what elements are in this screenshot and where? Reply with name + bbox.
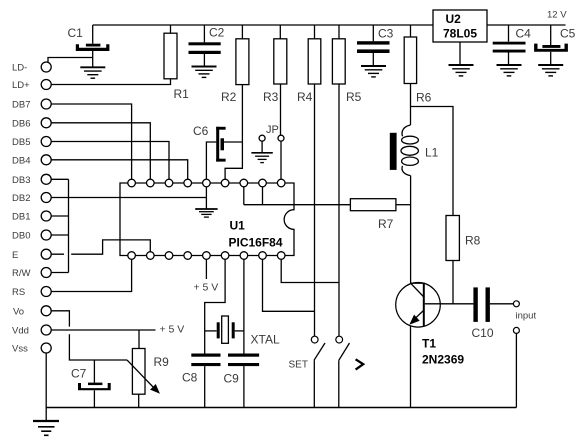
wire DB7 to U1 pin row: [51, 104, 131, 179]
capacitor C7: [78, 360, 111, 408]
svg-text:E: E: [12, 250, 18, 261]
svg-text:PIC16F84: PIC16F84: [229, 236, 283, 250]
wire JP to U1 pin 9: [280, 141, 282, 179]
ground bottom left: [33, 421, 59, 435]
wire DB3 to bus: [51, 178, 68, 180]
wire Vdd +5V: [51, 329, 155, 331]
svg-text:SET: SET: [289, 360, 308, 371]
wire E to U1 pin (with hop over bus): [51, 240, 150, 254]
connector terminal DB5: [41, 137, 51, 147]
jumper JP right pin: [278, 135, 284, 141]
svg-text:L1: L1: [425, 146, 439, 160]
wire DB6 to U1 pin row: [51, 123, 150, 179]
node input terminal upper: [513, 301, 519, 307]
connector terminal Vdd: [41, 325, 51, 335]
svg-text:DB1: DB1: [12, 212, 30, 223]
resistor R3: [274, 25, 287, 84]
connector terminal RS: [41, 287, 51, 297]
wire U1 pin 16 to C9/XTAL: [243, 259, 245, 353]
crystal XTAL: [205, 316, 244, 343]
svg-text:C9: C9: [224, 372, 240, 386]
svg-text:2N2369: 2N2369: [422, 353, 464, 367]
svg-text:JP: JP: [266, 124, 279, 136]
ground under U2: [449, 65, 474, 76]
ground under C4: [497, 65, 522, 76]
svg-text:R1: R1: [174, 87, 190, 101]
svg-text:DB0: DB0: [12, 231, 30, 242]
svg-text:Vdd: Vdd: [12, 326, 29, 337]
resistor R2: [236, 25, 249, 85]
ground under C1: [80, 67, 105, 78]
connector terminal LD+: [41, 80, 51, 90]
svg-text:+ 5 V: + 5 V: [160, 324, 185, 336]
wire DB4 to U1 pin row: [51, 160, 188, 179]
svg-text:R6: R6: [416, 91, 432, 105]
connector terminal DB2: [41, 193, 51, 203]
wire Vo to R9 wiper (hop over Vdd wire): [51, 311, 127, 360]
capacitor C3: [357, 25, 390, 66]
wire vertical bus DB3/DB1/DB0/RW: [68, 179, 70, 272]
wire input lower terminal to bottom rail: [515, 333, 517, 407]
wire R6 bottom to L1: [410, 84, 412, 126]
svg-text:T1: T1: [422, 337, 436, 351]
ground at JP: [251, 153, 272, 163]
capacitor C4: [493, 25, 526, 65]
label > switch: [356, 359, 364, 369]
resistor R8: [446, 216, 459, 261]
switch SET: [311, 336, 325, 407]
svg-text:R/W: R/W: [12, 268, 31, 279]
ground under C5: [538, 65, 563, 76]
ground at U1 pin 5: [195, 209, 217, 217]
wire R/W to bus: [51, 272, 68, 274]
connector terminal DB7: [41, 99, 51, 109]
svg-text:DB3: DB3: [12, 175, 30, 186]
svg-text:R9: R9: [154, 355, 170, 369]
wire +5V top rail left: [93, 24, 433, 26]
wire U1 pin 5 to ground: [205, 187, 207, 209]
wire L1 bottom to T1 collector: [410, 176, 412, 284]
U1 top pin circles 1-9: [128, 179, 285, 187]
wire R7 right to collector line: [396, 204, 411, 206]
svg-text:U2: U2: [446, 12, 462, 26]
connector terminal LD-: [41, 62, 51, 72]
svg-text:RS: RS: [12, 287, 25, 298]
wire U1 pins 7,8 to R7: [244, 187, 351, 205]
svg-text:C6: C6: [193, 124, 209, 138]
svg-text:C4: C4: [516, 27, 532, 41]
wire T1 base to C10: [425, 303, 474, 305]
wire R9 top to Vdd line: [138, 330, 140, 349]
svg-text:U1: U1: [230, 219, 246, 233]
resistor R7: [350, 199, 396, 211]
wire 12V rail right of U2: [487, 24, 566, 26]
connector terminal E: [41, 249, 51, 259]
wire R3 bottom to jumper JP: [280, 84, 282, 135]
wire U2 output to ground: [459, 42, 461, 65]
wire U1 pin 14 to +5V label: [205, 259, 207, 279]
svg-text:DB2: DB2: [12, 193, 30, 204]
U1 bottom pin circles 10-18: [128, 252, 285, 260]
connector terminal DB3: [41, 174, 51, 184]
svg-text:LD-: LD-: [12, 63, 27, 74]
svg-text:DB4: DB4: [12, 155, 30, 166]
capacitor C9: [228, 354, 259, 408]
svg-text:input: input: [516, 311, 537, 322]
wire JP left pin to ground: [261, 141, 263, 152]
resistor R1: [164, 25, 177, 79]
svg-text:C2: C2: [209, 26, 225, 40]
wire U1 pin 18 to > switch: [281, 259, 339, 282]
wire RS to U1 pin: [51, 259, 131, 291]
wire LD+ to R1 bottom: [51, 79, 170, 85]
connector terminal Vss: [41, 343, 51, 353]
connector terminal R/W: [41, 268, 51, 278]
svg-text:C7: C7: [71, 367, 87, 381]
capacitor C6 trimmer: [206, 127, 242, 179]
connector terminal Vo: [41, 306, 51, 316]
svg-text:12 V: 12 V: [547, 10, 567, 21]
core bar of L1: [390, 133, 397, 170]
wire bottom ground rail: [46, 407, 517, 409]
capacitor C1: [76, 25, 110, 67]
wire U1 pin 17 to SET switch: [263, 259, 315, 311]
IC U1 PIC16F84 body with notch: [120, 183, 294, 256]
svg-text:C3: C3: [378, 27, 394, 41]
connector terminal DB1: [41, 211, 51, 221]
svg-text:XTAL: XTAL: [251, 333, 280, 347]
resistor R6: [404, 25, 416, 84]
svg-text:C5: C5: [560, 27, 576, 41]
svg-text:R7: R7: [378, 217, 394, 231]
inductor L1: [401, 125, 418, 176]
svg-text:Vo: Vo: [13, 306, 24, 317]
connector terminal DB6: [41, 118, 51, 128]
svg-text:C8: C8: [182, 371, 198, 385]
ground under C2: [192, 67, 217, 78]
svg-text:C1: C1: [68, 26, 84, 40]
wire R4 bottom to SET switch: [314, 84, 316, 336]
wire R8 bottom to base line: [452, 261, 454, 304]
jumper JP left pin: [259, 135, 265, 141]
capacitor C8: [191, 354, 220, 408]
wire T1 emitter to bottom rail: [410, 326, 412, 408]
resistor R5: [332, 25, 345, 84]
wire Vss to bottom rail and ground: [45, 353, 47, 421]
connector terminal DB0: [41, 230, 51, 240]
wire DB5 to U1 pin row: [51, 142, 169, 180]
capacitor C10: [473, 287, 513, 322]
potentiometer R9: [127, 349, 159, 408]
wire U1 pin 15 to C8/XTAL: [205, 259, 225, 353]
node input terminal lower: [513, 327, 519, 333]
resistor R4: [308, 25, 321, 84]
capacitor C2: [189, 25, 221, 66]
wire DB1 to bus: [51, 215, 68, 217]
wire R2 bottom to U1 pin 6: [225, 85, 242, 180]
transistor T1: [396, 283, 441, 328]
svg-text:Vss: Vss: [12, 344, 28, 355]
wire R5 bottom to > switch: [338, 84, 340, 336]
wire LD- to C1 ground: [48, 58, 93, 63]
svg-text:R2: R2: [221, 90, 237, 104]
wire junction R6/L1 to R8 top: [411, 107, 454, 216]
voltage regulator U2 78L05: [433, 10, 487, 42]
svg-text:78L05: 78L05: [443, 27, 477, 41]
svg-text:R5: R5: [346, 90, 362, 104]
ground under C3: [361, 66, 386, 77]
capacitor C5: [534, 25, 568, 65]
svg-text:R8: R8: [465, 234, 481, 248]
svg-text:+ 5 V: + 5 V: [194, 282, 219, 294]
svg-text:DB5: DB5: [12, 137, 30, 148]
svg-text:DB6: DB6: [12, 118, 30, 129]
connector terminal DB4: [41, 155, 51, 165]
svg-text:LD+: LD+: [12, 80, 30, 91]
wire DB0 to bus: [51, 234, 68, 236]
svg-text:R4: R4: [297, 90, 313, 104]
svg-text:DB7: DB7: [12, 100, 30, 111]
switch >: [336, 336, 350, 407]
wire DB2 to U1 ground stub: [51, 197, 206, 199]
svg-text:R3: R3: [263, 90, 279, 104]
svg-text:C10: C10: [472, 326, 494, 340]
